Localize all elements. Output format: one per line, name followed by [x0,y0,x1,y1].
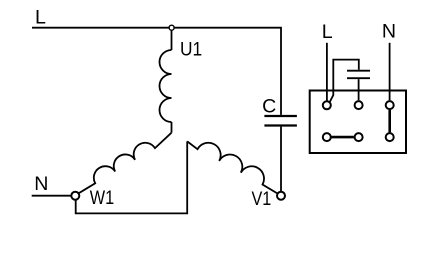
wire N to terminal 3 [389,43,391,101]
inductor V1 winding [187,141,277,193]
terminal 3 top-right [386,101,394,109]
link terminal 4 to 5 [332,136,354,139]
terminal W1 [71,192,79,200]
terminal 4 bottom-left [323,133,331,141]
terminal box outline [310,91,406,154]
wire capacitor to V1 [280,127,282,192]
capacitor C plates [264,115,297,117]
svg-text:N: N [382,21,396,43]
link terminal 3 to 6 [388,110,391,133]
wire capacitor branch from terminal 1 [330,60,359,103]
wire capacitor to terminal 2 [358,79,360,100]
node L junction [169,25,174,30]
svg-text:C: C [262,96,276,118]
svg-text:L: L [35,7,46,29]
wire L top line and down to capacitor [32,28,281,115]
svg-text:N: N [34,173,48,195]
terminal 6 bottom-right [386,133,394,141]
inductor U1 [160,50,172,122]
svg-text:V1: V1 [252,188,272,210]
terminal 2 top-middle [355,101,363,109]
capacitor in box plates [347,70,370,72]
svg-text:U1: U1 [180,39,202,61]
wire N [32,195,71,197]
inductor W1 winding [79,133,172,194]
svg-text:W1: W1 [90,187,114,209]
wire L to terminal 1 [326,43,328,101]
wire node to coil U1 [171,31,173,50]
terminal 1 top-left [323,101,331,109]
terminal V1 [277,192,285,200]
svg-text:L: L [322,21,333,43]
wire U1 coil to star lead [171,122,173,133]
terminal 5 bottom-middle [355,133,363,141]
wire W1 to V1 winding bottom run [76,141,188,213]
